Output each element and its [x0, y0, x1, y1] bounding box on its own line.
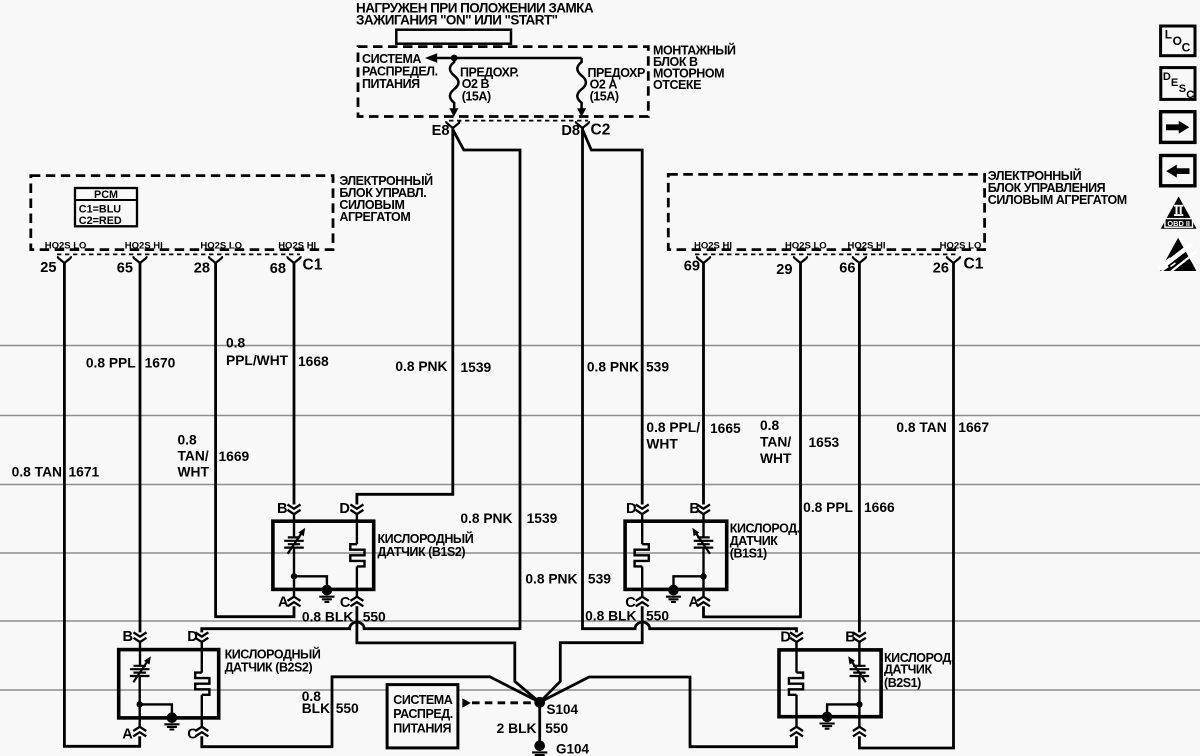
pin 69 [697, 256, 710, 263]
svg-text:A: A [278, 595, 289, 611]
svg-text:25: 25 [40, 260, 56, 276]
svg-text:0.8 BLK: 0.8 BLK [302, 609, 353, 624]
svg-text:PCM: PCM [94, 189, 118, 201]
svg-text:D: D [1163, 71, 1171, 83]
svg-text:2 BLK: 2 BLK [497, 721, 537, 736]
svg-text:WHT: WHT [760, 451, 792, 466]
icon: LOC button [1161, 26, 1195, 56]
wire 2 BLK 550: S104 to G104 [538, 702, 541, 741]
B2S2 sensing element [138, 642, 141, 727]
label: ЭЛЕКТРОННЫЙ БЛОК УПРАВЛ. СИЛОВЫМ АГРЕГАТОМ [339, 173, 433, 224]
underhood fuse block dashed box [358, 47, 648, 117]
PCM right dashed box [668, 174, 984, 249]
svg-text:HO2S HI: HO2S HI [278, 241, 316, 252]
svg-text:66: 66 [839, 260, 855, 276]
pin E8 [446, 121, 459, 128]
B1S1 pin D connector [636, 505, 649, 515]
svg-text:E: E [1171, 77, 1178, 89]
svg-text:HO2S LO: HO2S LO [200, 241, 242, 252]
wire label 0.8 PPL/WHT 1665 [646, 420, 741, 452]
svg-text:(B2S1): (B2S1) [884, 676, 921, 690]
dashed reference arrow S104 to power distribution [462, 698, 471, 707]
svg-text:PPL/WHT: PPL/WHT [226, 353, 289, 368]
wire BLK 550: B1S2 pin C to S104 [357, 606, 540, 702]
svg-text:550: 550 [646, 609, 669, 624]
B2S2 pin A connector [133, 727, 146, 737]
svg-text:0.8 PNK: 0.8 PNK [395, 359, 447, 374]
svg-text:S104: S104 [547, 702, 579, 717]
svg-text:26: 26 [933, 260, 949, 276]
B1S1 heater element [641, 514, 643, 597]
icon: arrow right button [1161, 112, 1195, 143]
svg-text:СИЛОВЫМ АГРЕГАТОМ: СИЛОВЫМ АГРЕГАТОМ [988, 193, 1127, 207]
page grid rules [0, 346, 1200, 691]
svg-text:69: 69 [684, 258, 700, 274]
wire label 0.8 PPL 1670 [86, 355, 176, 370]
svg-text:A: A [688, 595, 699, 611]
label: СИСТЕМА РАСПРЕДЕЛ. ПИТАНИЯ [362, 52, 438, 91]
wire label 0.8 PNK 539 (lower) [525, 571, 611, 586]
svg-text:D: D [780, 629, 791, 645]
svg-text:WHT: WHT [178, 465, 210, 480]
wire label 0.8 PNK 1539 (lower) [460, 511, 557, 526]
svg-text:C: C [625, 595, 636, 611]
wire: battery feed to fuses [436, 57, 582, 60]
ground G104 [532, 741, 547, 756]
svg-text:C: C [187, 726, 198, 742]
svg-text:G104: G104 [556, 741, 590, 756]
wire label 0.8 PPL/WHT 1668 [226, 335, 329, 369]
pin labels left PCM [45, 241, 316, 252]
B2S1 pin A connector [853, 727, 866, 737]
wire BLK 550: B2S1 pin C to S104 [540, 677, 797, 747]
svg-text:1669: 1669 [219, 449, 250, 464]
svg-text:B: B [122, 629, 133, 645]
svg-text:0.8 PNK: 0.8 PNK [525, 571, 577, 586]
svg-text:L: L [1165, 28, 1172, 42]
svg-text:ЗАЖИГАНИЯ "ON" ИЛИ "START": ЗАЖИГАНИЯ "ON" ИЛИ "START" [356, 12, 558, 27]
B2S2 pin D connector [195, 632, 208, 642]
wire PNK 1539: fuse E8 to B1S2 pin D [357, 128, 453, 505]
label: МОНТАЖНЫЙ БЛОК В МОТОРНОМ ОТСЕКЕ [653, 43, 736, 93]
node: feed junction [451, 55, 458, 62]
icon: ESD caution symbol [1160, 238, 1197, 272]
B2S2 pin C connector [195, 727, 208, 737]
svg-text:0.8: 0.8 [226, 335, 246, 350]
svg-text:C1: C1 [303, 257, 323, 274]
B2S1 pin D connector [790, 632, 803, 642]
pin 66 [853, 256, 866, 263]
wire PPL/WHT 1665: PCM pin 69 to B1S1 pin B [702, 263, 705, 505]
pin labels right PCM [694, 241, 981, 252]
svg-text:S: S [1179, 83, 1186, 95]
wire PNK 539: fuse D8 branch to B1S1 pin D [583, 130, 643, 505]
svg-text:539: 539 [646, 360, 669, 375]
wire TAN 1667: PCM pin 26 to B2S1 pin A [859, 263, 953, 748]
pin 26 [947, 256, 960, 263]
wire TAN/WHT 1669: PCM pin 28 to B1S2 pin A [216, 263, 294, 617]
svg-text:550: 550 [336, 701, 359, 716]
connector C1 face left (dashed) [57, 253, 300, 255]
svg-text:29: 29 [776, 262, 792, 278]
svg-text:B: B [277, 501, 288, 517]
svg-text:TAN/: TAN/ [178, 449, 209, 464]
oxygen sensor B2S1 [779, 650, 954, 717]
wire label 0.8 TAN/WHT 1653 [760, 418, 840, 466]
svg-text:D: D [187, 629, 198, 645]
svg-text:550: 550 [363, 609, 386, 624]
splice S104 [534, 697, 545, 708]
B2S2 pin B connector [134, 632, 147, 642]
svg-text:1666: 1666 [864, 500, 895, 515]
svg-text:КИСЛОРОДНЫЙ: КИСЛОРОДНЫЙ [225, 647, 321, 662]
B1S2 internal case ground [291, 573, 297, 579]
svg-text:65: 65 [117, 261, 133, 277]
svg-text:E8: E8 [432, 123, 450, 139]
svg-text:0.8 PNK: 0.8 PNK [460, 511, 512, 526]
svg-text:АГРЕГАТОМ: АГРЕГАТОМ [339, 210, 410, 224]
svg-text:(15А): (15А) [590, 90, 619, 104]
label: ЭЛЕКТРОННЫЙ БЛОК УПРАВЛЕНИЯ СИЛОВЫМ АГРЕГАТОМ [988, 168, 1127, 207]
oxygen sensor B1S1 [625, 521, 800, 589]
icon: DESC button [1161, 68, 1195, 102]
wire label 0.8 BLK 550 (B1S2) [302, 609, 386, 624]
wire label 2 BLK 550 [497, 721, 569, 736]
svg-text:HO2S LO: HO2S LO [45, 241, 87, 252]
svg-text:HO2S HI: HO2S HI [847, 241, 885, 252]
wire label 0.8 TAN 1671 [12, 464, 100, 479]
svg-text:C: C [1182, 41, 1191, 55]
svg-text:OBD II: OBD II [1167, 219, 1190, 228]
svg-text:0.8: 0.8 [760, 418, 780, 433]
wire label 0.8 PNK 539 (upper) [587, 360, 670, 375]
B1S2 pin A connector [288, 597, 301, 607]
svg-text:C1=BLU: C1=BLU [79, 204, 121, 216]
connector C2 face (dashed) [449, 120, 588, 122]
svg-text:0.8 PPL/: 0.8 PPL/ [646, 420, 700, 435]
note: ignition condition label [356, 0, 594, 27]
oxygen sensor B2S2 [119, 647, 321, 718]
svg-text:HO2S LO: HO2S LO [940, 241, 982, 252]
svg-text:C1: C1 [964, 256, 984, 273]
svg-text:68: 68 [270, 261, 286, 277]
wire PNK 1539: fuse E8 branch to B2S2 pin D (hop over BLK wire) [202, 130, 520, 633]
B1S2 sensing element [293, 514, 295, 597]
svg-text:ДАТЧИК: ДАТЧИК [884, 662, 932, 676]
connector C1 face right (dashed) [695, 253, 958, 255]
wire TAN/WHT 1653: PCM pin 29 to B1S1 pin A [704, 263, 801, 617]
wire label 0.8 TAN 1667 [896, 420, 989, 435]
svg-text:1668: 1668 [298, 354, 329, 369]
svg-text:РАСПРЕД.: РАСПРЕД. [393, 707, 452, 721]
icon: OBD II symbol [1161, 197, 1197, 229]
wire BLK 550: B2S2 pin C to S104 [202, 677, 540, 747]
svg-text:ПИТАНИЯ: ПИТАНИЯ [362, 77, 420, 91]
svg-text:A: A [122, 726, 133, 742]
svg-text:D8: D8 [561, 123, 580, 139]
svg-text:B: B [845, 629, 856, 645]
arrow to power distribution [425, 53, 437, 63]
svg-text:1665: 1665 [710, 421, 741, 436]
wire label 0.8 BLK 550 (B1S1) [585, 609, 669, 624]
svg-text:550: 550 [545, 721, 568, 736]
power distribution box (bottom) [387, 685, 458, 748]
pin 28 [209, 256, 222, 263]
svg-text:(B1S1): (B1S1) [730, 546, 767, 560]
svg-text:1670: 1670 [145, 355, 176, 370]
svg-text:539: 539 [588, 571, 611, 586]
svg-text:ОТСЕКЕ: ОТСЕКЕ [653, 78, 701, 92]
svg-text:0.8 TAN: 0.8 TAN [12, 464, 62, 479]
svg-text:ДАТЧИК (B2S2): ДАТЧИК (B2S2) [225, 661, 313, 675]
svg-text:HO2S HI: HO2S HI [125, 241, 163, 252]
svg-text:C: C [340, 595, 351, 611]
B2S2 internal case ground [137, 701, 143, 707]
icon: arrow left button [1161, 156, 1195, 186]
wire TAN 1671: PCM pin 25 to B2S2 pin A [64, 263, 139, 746]
B1S1 internal case ground [700, 573, 706, 579]
wire BLK 550: B1S1 pin C to S104 [540, 606, 643, 702]
wire PPL 1666: PCM pin 66 to B2S1 pin B [858, 263, 861, 632]
svg-text:0.8 PNK: 0.8 PNK [587, 360, 639, 375]
pin 65 [134, 256, 147, 263]
PCM connector id table [75, 188, 137, 227]
PCM left dashed box [31, 176, 333, 250]
B2S1 pin C connector [790, 727, 803, 737]
svg-text:D: D [626, 501, 637, 517]
svg-text:C2=RED: C2=RED [79, 215, 122, 227]
wire PPL/WHT 1668: PCM pin 68 to B1S2 pin B [293, 263, 296, 505]
svg-text:1539: 1539 [461, 360, 492, 375]
ignition feed callout box [396, 30, 511, 44]
B1S1 sensing element [702, 514, 704, 597]
svg-text:C: C [1186, 89, 1194, 101]
svg-text:WHT: WHT [646, 436, 678, 451]
wire label 0.8 BLK 550 (B2S2) [302, 689, 359, 716]
pin D8 [576, 121, 589, 128]
svg-text:КИСЛОРОДНЫЙ: КИСЛОРОДНЫЙ [378, 531, 474, 546]
svg-text:0.8 PPL: 0.8 PPL [803, 500, 853, 515]
svg-text:1667: 1667 [958, 420, 989, 435]
B2S1 sensing element [858, 642, 860, 727]
B1S2 pin D connector [350, 505, 363, 515]
wire label 0.8 PPL 1666 [803, 500, 895, 515]
pin 29 [794, 256, 807, 263]
B1S1 pin B connector [697, 505, 710, 515]
fuse F2: ПРЕДОХР. О2 А 15A [577, 58, 586, 109]
B2S2 heater element [201, 642, 203, 727]
pin 25 [58, 256, 71, 263]
wire label 0.8 TAN/WHT 1669 [178, 433, 250, 480]
B1S2 pin C connector [350, 597, 363, 607]
svg-text:0.8: 0.8 [178, 433, 198, 448]
B2S1 internal case ground [856, 701, 862, 707]
svg-text:D: D [339, 501, 350, 517]
svg-text:C2: C2 [591, 121, 611, 138]
svg-text:HO2S HI: HO2S HI [694, 241, 732, 252]
oxygen sensor B1S2 [273, 521, 474, 589]
B1S1 pin C connector [636, 597, 649, 607]
wire PPL 1670: PCM pin 65 to B2S2 pin B [139, 263, 142, 632]
svg-text:TAN/: TAN/ [760, 435, 791, 450]
svg-text:0.8 TAN: 0.8 TAN [896, 420, 946, 435]
svg-text:1653: 1653 [809, 435, 840, 450]
svg-text:0.8 PPL: 0.8 PPL [86, 355, 136, 370]
fuse F1: ПРЕДОХР. О2 В 15A [450, 58, 459, 109]
svg-text:ДАТЧИК (B1S2): ДАТЧИК (B1S2) [378, 545, 466, 559]
svg-text:O: O [1173, 34, 1182, 48]
B2S1 heater element [795, 642, 797, 727]
svg-text:28: 28 [194, 261, 210, 277]
B1S1 pin A connector [697, 597, 710, 607]
B1S2 pin B connector [288, 505, 301, 515]
wire label 0.8 PNK 1539 (upper) [395, 359, 491, 375]
svg-text:B: B [689, 501, 700, 517]
svg-text:1671: 1671 [69, 464, 100, 479]
svg-text:BLK: BLK [302, 701, 330, 716]
svg-text:ПИТАНИЯ: ПИТАНИЯ [393, 722, 451, 736]
svg-text:СИСТЕМА: СИСТЕМА [393, 693, 452, 707]
svg-text:(15А): (15А) [462, 90, 491, 104]
wire PNK 539: fuse D8 to B2S1 pin D (hop over BLK wire) [583, 128, 797, 632]
B2S1 pin B connector [853, 632, 866, 642]
svg-text:HO2S LO: HO2S LO [785, 241, 827, 252]
B1S2 heater element [356, 514, 358, 597]
pin 68 [288, 256, 301, 263]
svg-text:1539: 1539 [527, 511, 558, 526]
